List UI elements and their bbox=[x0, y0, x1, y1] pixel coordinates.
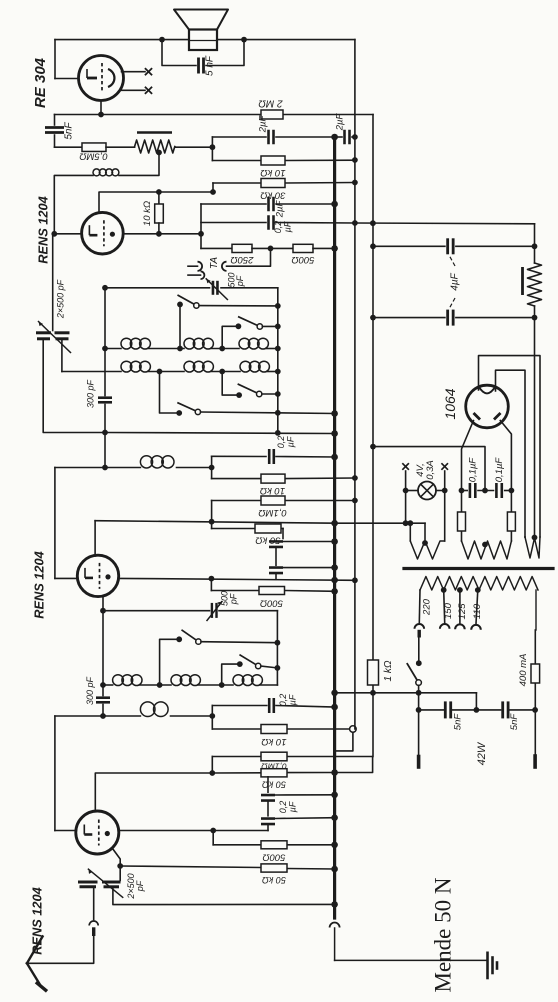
junction bbox=[100, 682, 106, 688]
wire TA to divider bbox=[227, 248, 271, 266]
wire bracket bot 2 bbox=[211, 757, 213, 774]
wire row 30k bbox=[213, 182, 261, 184]
junction bbox=[403, 488, 409, 494]
wire bbox=[252, 247, 293, 249]
socket 110 bbox=[471, 625, 481, 630]
svg-text:Mende 50 N: Mende 50 N bbox=[431, 877, 456, 992]
junction bbox=[331, 538, 338, 545]
wire bbox=[158, 223, 160, 234]
wire fuse line bbox=[534, 630, 536, 664]
wire HT to winding CT bbox=[534, 318, 536, 538]
wire bracket bot 1 bbox=[211, 706, 213, 730]
winding W3 rect heater bbox=[525, 537, 540, 558]
wire 1064 anode a bbox=[462, 421, 474, 491]
junction bbox=[219, 346, 225, 352]
wire stub capA bot bbox=[267, 777, 269, 792]
junction bbox=[210, 828, 216, 834]
svg-text:TA: TA bbox=[209, 257, 220, 269]
wire heater return row bbox=[94, 521, 96, 556]
wire row 0,2uF bot bbox=[212, 705, 266, 707]
junction bbox=[416, 707, 422, 713]
terminal ring bbox=[350, 726, 357, 733]
svg-text:300 pF: 300 pF bbox=[85, 676, 95, 705]
svg-text:0,5MΩ: 0,5MΩ bbox=[79, 150, 107, 161]
junction bbox=[209, 770, 215, 776]
junction bbox=[474, 707, 480, 713]
capacitor 0,2µF cath A bbox=[269, 540, 283, 543]
wire mid coil left bbox=[54, 468, 56, 579]
tube RENS 1204 bottom bbox=[76, 811, 119, 854]
junction bbox=[331, 690, 338, 697]
svg-text:10 kΩ: 10 kΩ bbox=[142, 201, 153, 226]
capacitor 2x500pF gang 1 bbox=[36, 331, 51, 334]
junction bbox=[159, 37, 165, 43]
wire grid2 row bbox=[99, 192, 213, 213]
wire row 10k bot bbox=[212, 728, 261, 730]
capacitor 5nF mains b bbox=[501, 701, 504, 718]
junction bbox=[219, 369, 225, 375]
inductor mid grid coil bbox=[140, 456, 152, 468]
junction bbox=[100, 608, 106, 614]
capacitor 300pF b bbox=[96, 696, 110, 699]
junction bbox=[331, 814, 338, 821]
resistor 10kΩ bot bbox=[261, 725, 287, 734]
capacitor 2x500pF gang 3 bbox=[78, 881, 98, 884]
wire grid leak row bbox=[120, 866, 261, 868]
junction bbox=[198, 231, 204, 237]
wire HT column bbox=[534, 224, 536, 247]
svg-text:50 kΩ: 50 kΩ bbox=[255, 535, 280, 546]
wire TA lead b bbox=[188, 274, 201, 276]
resistor 500Ω bot bbox=[261, 841, 287, 849]
inductor L1a bbox=[121, 338, 132, 349]
svg-text:0,1MΩ: 0,1MΩ bbox=[258, 507, 286, 518]
junction bbox=[209, 576, 215, 582]
junction pot tap bbox=[156, 150, 162, 156]
wire speaker shunt loop bbox=[162, 40, 196, 66]
junction bbox=[331, 410, 338, 417]
junction bbox=[407, 520, 413, 526]
mains prong b bbox=[533, 756, 537, 767]
wire bottom grid rail bbox=[54, 716, 56, 831]
svg-text:0,3A: 0,3A bbox=[425, 460, 436, 480]
socket 220 bbox=[415, 624, 425, 629]
junction bbox=[370, 220, 376, 226]
terminal TA c bbox=[222, 262, 227, 271]
wire row 0,1M mid bbox=[212, 500, 261, 502]
wire tap 220 bbox=[418, 590, 421, 623]
resistor 10kΩ vertical bbox=[155, 204, 164, 223]
wire bbox=[276, 136, 332, 138]
wire row 500 bot bbox=[213, 844, 261, 846]
wire anode row bot bbox=[119, 830, 268, 832]
svg-text:50 kΩ: 50 kΩ bbox=[262, 875, 286, 885]
resistor surge a bbox=[458, 512, 466, 531]
junction bbox=[331, 588, 338, 595]
capacitor 0,2µF mid bbox=[268, 449, 271, 464]
lamp dial bbox=[418, 482, 436, 500]
capacitor 4µF b bbox=[446, 310, 449, 326]
junction bbox=[275, 410, 281, 416]
junction bbox=[331, 520, 338, 527]
junction bbox=[275, 430, 281, 436]
inductor L2b bbox=[184, 361, 195, 372]
wire bbox=[276, 456, 335, 459]
tube RENS 1204 mid bbox=[77, 555, 118, 596]
junction bbox=[331, 577, 338, 584]
resistor 1kΩ bbox=[368, 660, 379, 685]
wire lamp terminal b bbox=[444, 471, 446, 491]
resistor 250Ω bbox=[232, 244, 252, 252]
resistor 0,1MΩ bot bbox=[261, 752, 287, 761]
wire bbox=[352, 136, 355, 138]
switch S5 bbox=[182, 630, 198, 641]
tube 1064 bbox=[466, 385, 509, 428]
junction bbox=[102, 430, 108, 436]
svg-text:2µF: 2µF bbox=[335, 113, 346, 132]
capacitor cath bot B bbox=[261, 817, 275, 820]
junction bbox=[157, 682, 163, 688]
wire row 50k mid bbox=[212, 528, 255, 530]
junction bbox=[370, 690, 376, 696]
svg-text:5nF: 5nF bbox=[453, 713, 464, 731]
potentiometer bleeder bbox=[528, 263, 542, 306]
wire mid coil row bbox=[105, 467, 140, 469]
wire bbox=[276, 203, 335, 205]
wire mains row bbox=[335, 692, 477, 694]
wire rail right block2 bbox=[276, 611, 278, 685]
junction bbox=[331, 245, 338, 252]
junction bbox=[457, 587, 463, 593]
terminal x filament b bbox=[145, 87, 152, 94]
wire rail left block2 bbox=[102, 611, 104, 696]
wire coil to grid rail bbox=[54, 175, 93, 233]
resistor 50kΩ leak bbox=[261, 864, 287, 872]
capacitor 0,2µF cath bot A bbox=[261, 794, 275, 797]
switch S1 bbox=[178, 295, 196, 305]
socket 150 bbox=[440, 624, 450, 629]
wire anode row mid bbox=[119, 578, 355, 580]
switch S2 bbox=[239, 317, 260, 327]
junction bbox=[331, 769, 338, 776]
wire bbox=[158, 192, 160, 204]
wire bbox=[201, 642, 277, 643]
mains prong a bbox=[417, 757, 421, 768]
junction bbox=[98, 112, 104, 118]
wire gang1 left down bbox=[43, 339, 105, 433]
junction bbox=[416, 690, 422, 696]
wire B- jog bbox=[336, 757, 373, 773]
wire bbox=[283, 567, 335, 569]
rail B+ feed bbox=[354, 40, 356, 729]
capacitor cath B bbox=[269, 566, 283, 569]
switch S6 bbox=[240, 655, 258, 666]
capacitor 500pF trimmer 1 bbox=[212, 281, 215, 295]
junction bbox=[370, 315, 376, 321]
wire lamp drop a bbox=[405, 491, 407, 524]
junction bbox=[331, 792, 338, 799]
inductor L1b bbox=[184, 338, 195, 349]
junction bbox=[331, 454, 338, 461]
wire bbox=[275, 817, 335, 820]
svg-text:300 pF: 300 pF bbox=[86, 379, 96, 408]
wire lamp terminal a bbox=[405, 471, 407, 491]
wire bbox=[276, 706, 335, 708]
svg-text:10 kΩ: 10 kΩ bbox=[260, 167, 285, 178]
junction bbox=[275, 640, 281, 646]
capacitor 0,2µF bbox=[267, 215, 270, 230]
junction bbox=[157, 369, 163, 375]
rail B- feed bbox=[372, 115, 374, 661]
junction bbox=[352, 577, 358, 583]
svg-text:220: 220 bbox=[422, 598, 433, 616]
wire rail left mid bbox=[104, 433, 106, 468]
wire S2 link bbox=[222, 326, 238, 348]
junction bbox=[209, 465, 215, 471]
bus chassis rail bbox=[333, 137, 336, 919]
wire ground lead bbox=[335, 959, 486, 961]
svg-text:0,1µF: 0,1µF bbox=[468, 457, 479, 483]
svg-text:10 kΩ: 10 kΩ bbox=[261, 736, 286, 747]
wire S3 link bbox=[222, 372, 239, 396]
svg-text:2×500 pF: 2×500 pF bbox=[56, 279, 66, 319]
ground bbox=[486, 953, 489, 978]
resistor 50kΩ bot bbox=[261, 769, 287, 777]
wire switch feed bbox=[418, 636, 420, 663]
wire grid lead bot bbox=[55, 830, 76, 832]
junction bbox=[51, 231, 57, 237]
wire tube2 cathode drop bbox=[102, 596, 104, 610]
junction bbox=[275, 346, 281, 352]
inductor L3c bbox=[233, 675, 244, 686]
junction bbox=[331, 842, 338, 849]
bus hop bbox=[330, 923, 340, 928]
svg-text:pF: pF bbox=[135, 880, 145, 892]
wire S5 link bbox=[160, 639, 180, 685]
wire grid lead mid bbox=[55, 577, 77, 579]
junction bbox=[442, 488, 448, 494]
svg-text:125: 125 bbox=[457, 603, 468, 620]
wire bbox=[262, 393, 278, 395]
wire block2 coil row bbox=[103, 684, 113, 686]
wire row 500 mid bbox=[211, 590, 259, 592]
junction bbox=[331, 866, 338, 873]
wire row 50k bot bbox=[212, 772, 261, 774]
wire bbox=[337, 136, 342, 138]
junction bbox=[241, 37, 247, 43]
junction bbox=[117, 863, 123, 869]
svg-text:500Ω: 500Ω bbox=[262, 852, 285, 863]
wire bbox=[267, 824, 269, 831]
junction bbox=[177, 346, 183, 352]
junction bbox=[422, 540, 428, 546]
wire bbox=[282, 529, 284, 539]
svg-text:pF: pF bbox=[229, 593, 239, 605]
svg-text:250Ω: 250Ω bbox=[230, 254, 254, 265]
wire bbox=[262, 325, 277, 327]
wire bbox=[261, 666, 278, 668]
inductor bottom grid coil bbox=[140, 702, 155, 717]
junction bbox=[102, 346, 108, 352]
wire row 10k bbox=[212, 160, 261, 162]
wire bottom coil row bbox=[55, 715, 140, 717]
wire HT top rail bbox=[55, 39, 189, 41]
junction bus top bbox=[331, 134, 338, 141]
wire gang3 feed bbox=[119, 866, 121, 881]
wire 5nF row bbox=[419, 709, 444, 711]
svg-text:500Ω: 500Ω bbox=[291, 254, 314, 265]
resistor 10kΩ bbox=[261, 156, 285, 165]
junction bbox=[210, 189, 216, 195]
switch S3 bbox=[238, 384, 259, 394]
wire TA lead a bbox=[188, 265, 198, 267]
junction bbox=[370, 444, 376, 450]
svg-text:2µF: 2µF bbox=[258, 115, 269, 134]
capacitor 5nF speaker shunt bbox=[197, 58, 200, 74]
junction bbox=[275, 303, 281, 309]
resistor 2MΩ bbox=[261, 110, 283, 119]
svg-text:1064: 1064 bbox=[442, 388, 458, 419]
wire gang3 right drop bbox=[113, 887, 335, 905]
inductor L2c bbox=[240, 361, 251, 372]
svg-text:500Ω: 500Ω bbox=[260, 598, 283, 609]
junction bbox=[268, 246, 274, 252]
junction bbox=[352, 180, 358, 186]
wire row 2uF bbox=[212, 136, 266, 138]
junction bbox=[209, 519, 215, 525]
wire bracket mid 1 bbox=[211, 456, 213, 478]
junction bbox=[210, 144, 216, 150]
wire band row top bbox=[105, 287, 210, 289]
wire bracket anode bbox=[200, 204, 202, 248]
wire 0,1uF row bbox=[462, 490, 468, 492]
junction bbox=[403, 520, 409, 526]
terminal x lamp a bbox=[402, 463, 409, 470]
wire block1 bottom row bbox=[105, 433, 335, 434]
svg-text:1 kΩ: 1 kΩ bbox=[383, 660, 394, 681]
junction bbox=[352, 134, 358, 140]
junction bbox=[331, 430, 338, 437]
wire RE304 grid-left drop bbox=[54, 40, 56, 79]
junction bbox=[275, 369, 281, 375]
junction bbox=[331, 704, 338, 711]
terminal TA b bbox=[201, 271, 205, 279]
junction bbox=[156, 231, 162, 237]
junction bbox=[532, 535, 538, 541]
wire coil row 1 bbox=[105, 348, 121, 350]
wire antenna lead bbox=[27, 936, 94, 963]
svg-text:50 kΩ: 50 kΩ bbox=[262, 780, 286, 790]
svg-text:2µF: 2µF bbox=[275, 200, 286, 219]
wire 1064 filament b bbox=[496, 370, 526, 537]
wire RE304 filament a bbox=[122, 71, 146, 73]
resistor 500Ω mid bbox=[259, 587, 285, 595]
svg-text:µF: µF bbox=[288, 801, 298, 812]
junction bbox=[352, 157, 358, 163]
wire row 0,2uF mid bbox=[212, 455, 266, 457]
wire bbox=[106, 146, 135, 148]
inductor antenna coupling bbox=[89, 921, 98, 926]
junction bbox=[100, 713, 106, 719]
wire tap 125 bbox=[459, 590, 461, 623]
capacitor 300pF a bbox=[98, 396, 112, 399]
svg-text:0,2: 0,2 bbox=[278, 801, 288, 814]
resistor 50kΩ mid bbox=[255, 524, 281, 533]
wire pot tap to AF coil bbox=[119, 153, 159, 176]
wire 4uF row 2 bbox=[373, 317, 445, 319]
svg-text:110: 110 bbox=[472, 603, 483, 619]
junction bbox=[331, 201, 338, 208]
capacitor 0,1µF a bbox=[469, 483, 472, 498]
wire bbox=[418, 685, 420, 756]
wire bbox=[199, 305, 278, 307]
junction bbox=[275, 391, 281, 397]
capacitor 2µF anode bbox=[267, 197, 270, 212]
junction bbox=[102, 465, 108, 471]
junction bbox=[275, 324, 281, 330]
wire anode resistor stub b bbox=[510, 491, 512, 513]
junction bbox=[509, 488, 515, 494]
resistor 0,5MΩ bbox=[82, 143, 106, 152]
wire row 10k mid bbox=[212, 478, 261, 480]
wire S1 drop bbox=[179, 304, 181, 348]
junction bbox=[352, 220, 358, 226]
wire bbox=[201, 247, 232, 249]
inductor AF choke bbox=[93, 169, 100, 176]
wire grid lead bbox=[54, 233, 81, 235]
wire HV ct bbox=[373, 447, 485, 491]
junction bbox=[219, 682, 225, 688]
svg-text:400 mA: 400 mA bbox=[518, 654, 529, 687]
wire bracket mid 2 bbox=[211, 501, 213, 529]
socket 125 bbox=[455, 624, 465, 629]
terminal TA a bbox=[198, 262, 203, 271]
inductor L3b bbox=[171, 675, 182, 686]
wire anode row bbox=[123, 233, 201, 235]
wire bbox=[267, 801, 269, 816]
svg-text:0,2: 0,2 bbox=[276, 436, 286, 449]
wire lamp drop b bbox=[444, 491, 446, 542]
junction bbox=[331, 564, 338, 571]
svg-text:4µF: 4µF bbox=[450, 272, 461, 290]
wire grid row bbox=[55, 114, 262, 116]
wire bbox=[275, 573, 277, 578]
svg-text:0,1µF: 0,1µF bbox=[494, 457, 505, 483]
wire 1064 anode b bbox=[500, 421, 511, 491]
wire 4uF row 1 bbox=[373, 245, 445, 247]
svg-text:10 kΩ: 10 kΩ bbox=[260, 485, 285, 496]
inductor L3a bbox=[113, 675, 124, 686]
junction bbox=[352, 475, 358, 481]
junction bbox=[416, 660, 422, 666]
switch S4 bbox=[178, 403, 198, 412]
inductor L2a bbox=[121, 361, 132, 372]
inductor L1c bbox=[239, 338, 250, 349]
junction bbox=[482, 542, 488, 548]
wire W1 ct bbox=[424, 523, 426, 543]
wire bbox=[275, 794, 335, 796]
wire coil row 2 bbox=[62, 371, 121, 373]
resistor 500Ω bbox=[293, 244, 313, 252]
wire grid rail to gang bbox=[52, 234, 54, 331]
wire RE304 left lead bbox=[55, 78, 79, 80]
resistor 10kΩ mid bbox=[261, 474, 285, 483]
antenna bbox=[27, 936, 43, 963]
wire ring to bus bbox=[336, 732, 353, 751]
wire block2 top row bbox=[103, 610, 210, 612]
capacitor 5nF mains a bbox=[444, 701, 447, 718]
wire bracket bbox=[212, 183, 214, 192]
